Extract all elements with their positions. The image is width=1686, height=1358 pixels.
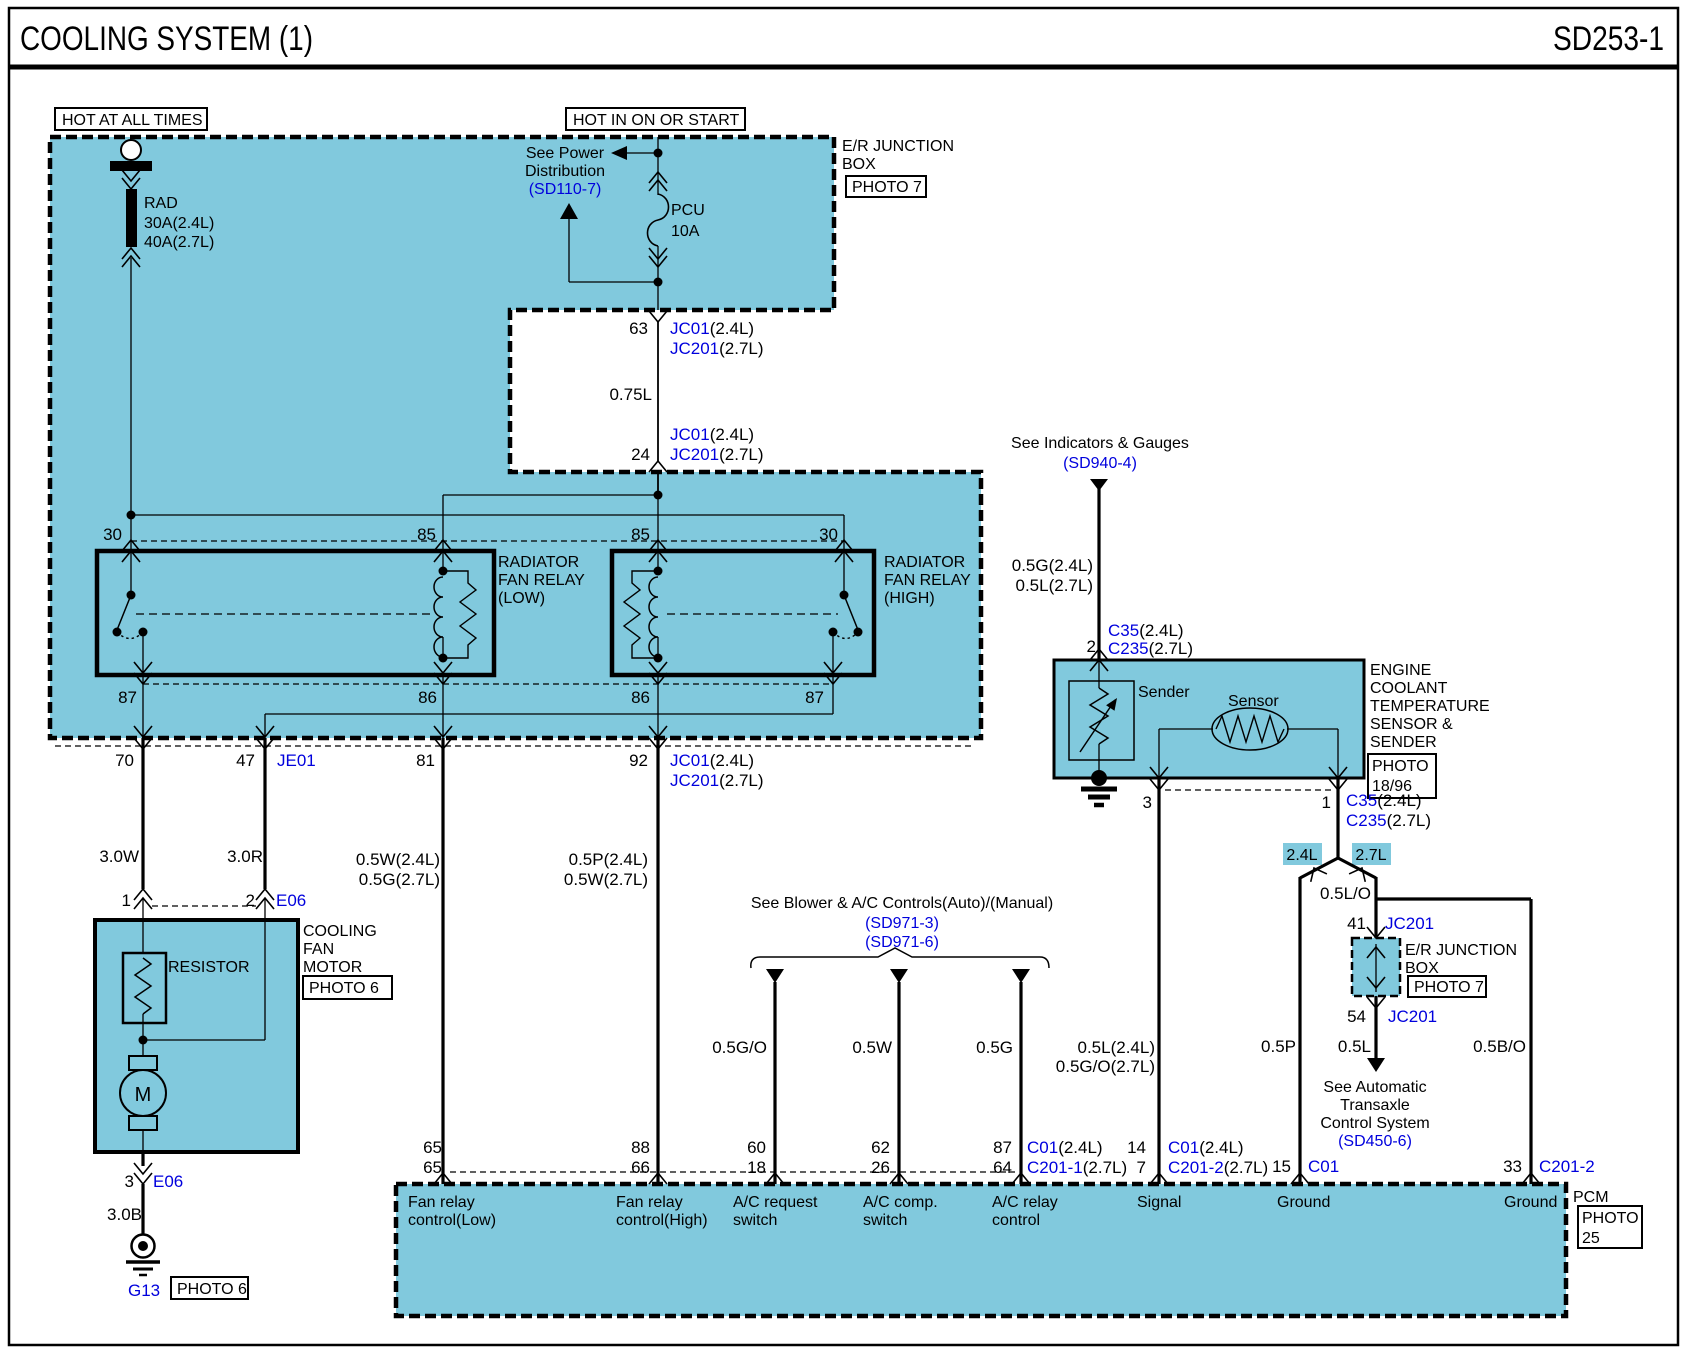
svg-text:(SD940-4): (SD940-4) — [1063, 455, 1137, 472]
svg-text:33: 33 — [1503, 1157, 1522, 1176]
svg-text:3.0W: 3.0W — [99, 847, 139, 866]
svg-text:A/C relay: A/C relay — [992, 1194, 1058, 1211]
svg-text:(SD971-6): (SD971-6) — [865, 934, 939, 951]
svg-text:0.5L: 0.5L — [1338, 1037, 1371, 1056]
svg-text:63: 63 — [629, 319, 648, 338]
svg-text:0.5G/O: 0.5G/O — [712, 1038, 767, 1057]
svg-text:0.5G: 0.5G — [976, 1038, 1013, 1057]
svg-text:JE01: JE01 — [277, 751, 316, 770]
svg-text:switch: switch — [863, 1212, 907, 1229]
svg-text:Control System: Control System — [1320, 1115, 1429, 1132]
svg-text:C01: C01 — [1308, 1157, 1339, 1176]
svg-text:0.5G(2.7L): 0.5G(2.7L) — [359, 870, 440, 889]
svg-text:18: 18 — [747, 1158, 766, 1177]
svg-text:86: 86 — [631, 688, 650, 707]
svg-text:RESISTOR: RESISTOR — [168, 959, 250, 976]
svg-text:(LOW): (LOW) — [498, 590, 545, 607]
svg-text:COOLING SYSTEM (1): COOLING SYSTEM (1) — [20, 20, 313, 58]
svg-text:65: 65 — [423, 1138, 442, 1157]
svg-text:SENDER: SENDER — [1370, 734, 1437, 751]
svg-text:JC01(2.4L): JC01(2.4L) — [670, 319, 754, 338]
svg-text:HOT IN ON OR START: HOT IN ON OR START — [573, 112, 739, 129]
svg-text:14: 14 — [1127, 1138, 1146, 1157]
svg-text:85: 85 — [417, 525, 436, 544]
svg-text:1: 1 — [1322, 793, 1331, 812]
svg-text:0.5G/O(2.7L): 0.5G/O(2.7L) — [1056, 1057, 1155, 1076]
svg-text:See Power: See Power — [526, 145, 605, 162]
svg-text:BOX: BOX — [1405, 960, 1439, 977]
svg-text:MOTOR: MOTOR — [303, 959, 362, 976]
svg-text:85: 85 — [631, 525, 650, 544]
svg-text:0.5L(2.7L): 0.5L(2.7L) — [1016, 576, 1094, 595]
svg-text:0.5L/O: 0.5L/O — [1320, 884, 1371, 903]
svg-text:70: 70 — [115, 751, 134, 770]
svg-text:41: 41 — [1347, 914, 1366, 933]
svg-text:SENSOR &: SENSOR & — [1370, 716, 1453, 733]
svg-text:FAN RELAY: FAN RELAY — [884, 572, 971, 589]
svg-text:26: 26 — [871, 1158, 890, 1177]
svg-text:30: 30 — [819, 525, 838, 544]
svg-text:COOLING: COOLING — [303, 923, 377, 940]
svg-text:HOT AT ALL TIMES: HOT AT ALL TIMES — [62, 112, 203, 129]
svg-text:54: 54 — [1347, 1007, 1366, 1026]
svg-text:PHOTO 6: PHOTO 6 — [177, 1281, 247, 1298]
svg-text:(SD110-7): (SD110-7) — [529, 181, 602, 198]
svg-text:C201-1(2.7L): C201-1(2.7L) — [1027, 1158, 1127, 1177]
svg-text:See Blower & A/C Controls(Auto: See Blower & A/C Controls(Auto)/(Manual) — [751, 895, 1053, 912]
svg-text:See Indicators & Gauges: See Indicators & Gauges — [1011, 435, 1189, 452]
svg-text:PHOTO: PHOTO — [1372, 758, 1429, 775]
svg-text:E/R JUNCTION: E/R JUNCTION — [842, 138, 954, 155]
svg-text:E06: E06 — [153, 1172, 183, 1191]
svg-text:81: 81 — [416, 751, 435, 770]
svg-text:86: 86 — [418, 688, 437, 707]
svg-text:RADIATOR: RADIATOR — [498, 554, 579, 571]
svg-text:(HIGH): (HIGH) — [884, 590, 935, 607]
svg-text:0.5W: 0.5W — [852, 1038, 892, 1057]
svg-text:92: 92 — [629, 751, 648, 770]
svg-text:BOX: BOX — [842, 156, 876, 173]
svg-text:7: 7 — [1137, 1158, 1146, 1177]
svg-text:PCU: PCU — [671, 202, 705, 219]
svg-text:A/C comp.: A/C comp. — [863, 1194, 938, 1211]
svg-text:G13: G13 — [128, 1281, 160, 1300]
svg-text:0.5L(2.4L): 0.5L(2.4L) — [1078, 1038, 1156, 1057]
svg-text:See Automatic: See Automatic — [1323, 1079, 1426, 1096]
svg-text:control(Low): control(Low) — [408, 1212, 496, 1229]
svg-text:3.0B: 3.0B — [107, 1205, 142, 1224]
svg-text:E06: E06 — [276, 891, 306, 910]
svg-text:Signal: Signal — [1137, 1194, 1181, 1211]
svg-text:C35(2.4L): C35(2.4L) — [1108, 621, 1184, 640]
svg-text:25: 25 — [1582, 1230, 1600, 1247]
svg-text:87: 87 — [805, 688, 824, 707]
svg-text:Ground: Ground — [1504, 1194, 1557, 1211]
svg-text:0.5W(2.7L): 0.5W(2.7L) — [564, 870, 648, 889]
svg-text:RADIATOR: RADIATOR — [884, 554, 965, 571]
svg-text:64: 64 — [993, 1158, 1012, 1177]
svg-text:C235(2.7L): C235(2.7L) — [1346, 811, 1431, 830]
svg-text:0.75L: 0.75L — [609, 385, 652, 404]
svg-text:switch: switch — [733, 1212, 777, 1229]
svg-text:PHOTO 7: PHOTO 7 — [1414, 979, 1484, 996]
svg-text:Fan relay: Fan relay — [408, 1194, 475, 1211]
svg-text:PCM: PCM — [1573, 1189, 1609, 1206]
svg-text:0.5B/O: 0.5B/O — [1473, 1037, 1526, 1056]
svg-text:PHOTO: PHOTO — [1582, 1210, 1639, 1227]
svg-text:JC201(2.7L): JC201(2.7L) — [670, 771, 764, 790]
svg-text:60: 60 — [747, 1138, 766, 1157]
svg-text:2.4L: 2.4L — [1286, 847, 1317, 864]
svg-text:FAN RELAY: FAN RELAY — [498, 572, 585, 589]
svg-text:C01(2.4L): C01(2.4L) — [1168, 1138, 1244, 1157]
svg-text:JC01(2.4L): JC01(2.4L) — [670, 751, 754, 770]
svg-text:A/C request: A/C request — [733, 1194, 818, 1211]
svg-text:65: 65 — [423, 1158, 442, 1177]
svg-text:87: 87 — [118, 688, 137, 707]
svg-text:47: 47 — [236, 751, 255, 770]
svg-text:3.0R: 3.0R — [227, 847, 263, 866]
svg-text:0.5P(2.4L): 0.5P(2.4L) — [569, 850, 648, 869]
svg-text:66: 66 — [631, 1158, 650, 1177]
svg-text:SD253-1: SD253-1 — [1553, 20, 1664, 58]
svg-text:ENGINE: ENGINE — [1370, 662, 1431, 679]
svg-text:Sender: Sender — [1138, 684, 1190, 701]
svg-text:1: 1 — [122, 891, 131, 910]
svg-text:JC201(2.7L): JC201(2.7L) — [670, 339, 764, 358]
svg-text:JC201: JC201 — [1388, 1007, 1437, 1026]
svg-text:0.5W(2.4L): 0.5W(2.4L) — [356, 850, 440, 869]
svg-text:10A: 10A — [671, 223, 700, 240]
svg-text:30A(2.4L): 30A(2.4L) — [144, 215, 214, 232]
svg-text:C235(2.7L): C235(2.7L) — [1108, 639, 1193, 658]
svg-text:Fan relay: Fan relay — [616, 1194, 683, 1211]
svg-text:JC201(2.7L): JC201(2.7L) — [670, 445, 764, 464]
svg-text:24: 24 — [631, 445, 650, 464]
svg-text:87: 87 — [993, 1138, 1012, 1157]
svg-text:88: 88 — [631, 1138, 650, 1157]
svg-text:TEMPERATURE: TEMPERATURE — [1370, 698, 1490, 715]
svg-text:M: M — [135, 1084, 152, 1106]
svg-text:COOLANT: COOLANT — [1370, 680, 1448, 697]
svg-text:3: 3 — [1143, 793, 1152, 812]
svg-text:(SD450-6): (SD450-6) — [1338, 1133, 1412, 1150]
svg-text:control: control — [992, 1212, 1040, 1229]
svg-text:C01(2.4L): C01(2.4L) — [1027, 1138, 1103, 1157]
svg-text:JC01(2.4L): JC01(2.4L) — [670, 425, 754, 444]
svg-text:Sensor: Sensor — [1228, 693, 1279, 710]
svg-text:3: 3 — [125, 1172, 134, 1191]
svg-text:PHOTO 7: PHOTO 7 — [852, 179, 922, 196]
svg-text:62: 62 — [871, 1138, 890, 1157]
svg-text:0.5P: 0.5P — [1261, 1037, 1296, 1056]
svg-text:RAD: RAD — [144, 195, 178, 212]
svg-text:C35(2.4L): C35(2.4L) — [1346, 791, 1422, 810]
svg-text:PHOTO 6: PHOTO 6 — [309, 980, 379, 997]
svg-text:control(High): control(High) — [616, 1212, 708, 1229]
svg-text:Distribution: Distribution — [525, 163, 605, 180]
svg-text:C201-2: C201-2 — [1539, 1157, 1595, 1176]
svg-text:FAN: FAN — [303, 941, 334, 958]
svg-text:Ground: Ground — [1277, 1194, 1330, 1211]
svg-text:(SD971-3): (SD971-3) — [865, 915, 939, 932]
svg-text:2: 2 — [246, 891, 255, 910]
svg-text:E/R JUNCTION: E/R JUNCTION — [1405, 942, 1517, 959]
svg-text:2.7L: 2.7L — [1355, 847, 1386, 864]
svg-text:2: 2 — [1087, 637, 1096, 656]
svg-text:C201-2(2.7L): C201-2(2.7L) — [1168, 1158, 1268, 1177]
svg-text:15: 15 — [1272, 1157, 1291, 1176]
svg-text:0.5G(2.4L): 0.5G(2.4L) — [1012, 556, 1093, 575]
svg-text:Transaxle: Transaxle — [1340, 1097, 1410, 1114]
svg-text:JC201: JC201 — [1385, 914, 1434, 933]
svg-text:30: 30 — [103, 525, 122, 544]
svg-text:40A(2.7L): 40A(2.7L) — [144, 234, 214, 251]
